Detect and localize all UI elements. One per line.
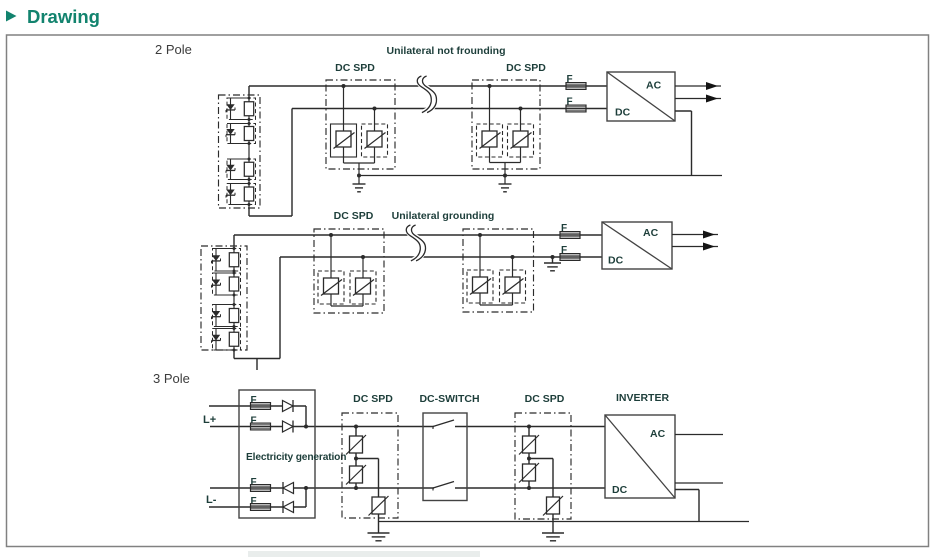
svg-text:DC: DC: [608, 255, 624, 267]
svg-text:F: F: [561, 223, 567, 234]
DC SPD 1 (diagram 1) earth descender: [358, 163, 360, 184]
svg-text:AC: AC: [646, 80, 662, 92]
PV generator block (diagram 2) unit 3 bottom connector: [216, 326, 234, 328]
PV generator block (diagram 2) unit 2 top connector: [216, 272, 234, 274]
svg-text:AC: AC: [643, 227, 659, 239]
svg-text:F: F: [567, 74, 573, 85]
node L+ tap (diagram 3 SPD1): [354, 425, 358, 429]
wire input 1 (diagram 3): [209, 405, 306, 407]
PV generator block (diagram 1) unit 1 diode lead: [230, 98, 232, 120]
DC SPD 2 (diagram 1) varistor A: [477, 124, 503, 157]
varistor 1 (diagram 3 SPD1): [350, 436, 363, 453]
svg-text:AC: AC: [650, 428, 666, 440]
Electricity generation box: [239, 390, 315, 518]
PV generator block (diagram 1) outer box: [219, 95, 261, 208]
PV generator block (diagram 1) unit 2 junction dots: [248, 122, 251, 125]
PV generator block (diagram 2) unit 4 diode lead: [215, 329, 217, 351]
PV generator block (diagram 1) unit 1 fuse: [244, 102, 253, 116]
PV generator block (diagram 1) unit 1 bottom connector: [231, 119, 250, 121]
DC SPD 1 (diagram 1) box: [326, 80, 395, 169]
diode D2 (generation): [283, 421, 294, 432]
PV generator block (diagram 1) unit 1 top connector: [231, 97, 250, 99]
PV generator block (diagram 2) unit 4 top connector: [216, 328, 234, 330]
switch contact 1 (DC-SWITCH): [432, 427, 434, 430]
DC SPD 1 (diagram 1) wire tap A: [343, 86, 345, 131]
ground junction (diagram 2): [551, 255, 555, 259]
varistor 3 (diagram 3 SPD1): [372, 497, 385, 514]
PV generator block (diagram 1) unit 3 top connector: [231, 158, 250, 160]
wire L+ after switch (diagram 3): [455, 426, 605, 428]
PV generator block (diagram 1) unit 2 fuse: [244, 127, 253, 141]
wire L+ bus (diagram 1): [248, 86, 250, 95]
svg-text:DC SPD: DC SPD: [334, 210, 374, 222]
PV generator block (diagram 1) unit 4 junction dots: [248, 182, 251, 185]
AC output arrow 1 (diagram 1): [675, 85, 721, 87]
wire input 4 (diagram 3): [209, 506, 306, 508]
wire L- (diagram 3): [210, 487, 434, 489]
fuse F3 (generation): [251, 485, 271, 492]
PV generator block (diagram 2) unit 2 diode lead: [215, 273, 217, 295]
svg-text:Unilateral not frounding: Unilateral not frounding: [387, 45, 506, 57]
wire L+ (diagram 3): [210, 426, 434, 428]
DC SPD 1 (diagram 2) varistor A: [318, 271, 344, 304]
varistor 2 (diagram 3 SPD1): [350, 466, 363, 483]
PV generator block (diagram 1) unit 2 sub-box: [227, 124, 256, 144]
node L+ tap (diagram 3 SPD2): [527, 425, 531, 429]
PV generator block (diagram 2) outer box: [201, 246, 247, 350]
inverter U3 (INVERTER): [605, 415, 675, 498]
PV generator block (diagram 2) unit 4 fuse: [229, 332, 238, 346]
PV generator block (diagram 2) unit 1 top connector: [216, 248, 234, 250]
svg-text:L+: L+: [203, 414, 216, 426]
PV generator block (diagram 1) unit 3 fuse: [244, 162, 253, 176]
DC SPD 2 (diagram 2) wire tap A: [479, 235, 481, 277]
PV generator block (diagram 1) unit 4 diode lead: [230, 184, 232, 205]
DC SPD 2 (diagram 2) varistor B: [500, 270, 526, 303]
PV generator block (diagram 1) unit 1 sub-box: [227, 98, 256, 120]
DC SPD 1 box (diagram 3): [342, 413, 398, 518]
PV generator block (diagram 2) unit 1 sub-box: [213, 249, 241, 272]
mid node (diagram 3 SPD1): [355, 453, 357, 466]
svg-text:Unilateral grounding: Unilateral grounding: [392, 210, 495, 222]
PV generator block (diagram 2) unit 3 top connector: [216, 304, 234, 306]
wire L- bus (diagram 1): [248, 208, 250, 216]
PV generator block (diagram 1) unit 1 junction dots: [248, 97, 251, 100]
PV generator block (diagram 1) unit 1 diode: [226, 104, 234, 110]
varistor 1 (diagram 3 SPD2): [523, 436, 536, 453]
earth bus junction (diagram 1 SPD2): [503, 174, 507, 178]
svg-text:3 Pole: 3 Pole: [153, 371, 190, 386]
diode D3 (generation): [283, 483, 294, 494]
PV generator block (diagram 2) unit 2 junction dots: [233, 272, 236, 275]
inverter U1 (diagram 1): [607, 72, 675, 121]
DC SPD 2 (diagram 1) bottom join: [489, 147, 491, 163]
inverter U2 (diagram 2): [602, 222, 672, 269]
svg-text:F: F: [567, 97, 573, 108]
diode D4 (generation): [283, 502, 294, 513]
AC output arrow 1 (diagram 2): [672, 234, 718, 236]
wire L- after switch (diagram 3): [455, 487, 605, 489]
line break symbol (diagram 1): [420, 76, 434, 113]
PV generator block (diagram 2) unit 4 sub-box: [213, 329, 241, 351]
AC output arrow 2 (diagram 2): [672, 246, 718, 248]
PV generator block (diagram 1) unit 4 fuse: [244, 187, 253, 201]
DC SPD 1 (diagram 1) bottom join: [343, 147, 345, 163]
svg-text:DC: DC: [615, 107, 631, 119]
PV generator block (diagram 2) unit 1 fuse: [229, 253, 238, 267]
node L- tap (diagram 3 SPD1): [355, 483, 357, 488]
svg-text:DC SPD: DC SPD: [335, 62, 375, 74]
fuse F4 (generation): [251, 504, 271, 511]
mid node (diagram 3 SPD2): [528, 453, 530, 464]
AC output wire 2 (diagram 3): [675, 482, 723, 484]
svg-text:DC SPD: DC SPD: [506, 62, 546, 74]
DC SPD 1 (diagram 2) wire tap B: [362, 257, 364, 278]
PV generator block (diagram 2) unit 2 fuse: [229, 277, 238, 291]
PV generator block (diagram 2) unit 1 junction dots: [233, 247, 236, 250]
earth bus (diagram 3): [379, 521, 750, 523]
PV generator block (diagram 1) unit 2 diode: [226, 129, 234, 135]
wire L+ bus (diagram 2): [233, 235, 235, 246]
PV generator block (diagram 2) unit 2 diode: [212, 280, 220, 286]
DC SPD 1 (diagram 1) varistor A: [331, 124, 357, 157]
stub wire (diagram 2 bottom): [256, 359, 258, 371]
PV generator block (diagram 2) unit 3 diode: [212, 311, 220, 317]
PV generator block (diagram 1) unit 4 bottom connector: [231, 204, 250, 206]
DC SPD 2 (diagram 2) varistor A: [467, 270, 493, 303]
PV generator block (diagram 2) unit 3 fuse: [229, 309, 238, 323]
fuse F2 (diagram 1): [566, 105, 586, 112]
svg-text:DC: DC: [612, 484, 628, 496]
DC SPD 1 (diagram 2) box: [314, 229, 384, 313]
PV generator block (diagram 1) unit 3 junction dots: [248, 158, 251, 161]
branch wire (diagram 3 SPD2): [529, 458, 553, 460]
DC SPD 2 (diagram 1) earth descender: [504, 163, 506, 185]
ground (diagram 3, under SPD 1): [378, 514, 380, 533]
PV generator block (diagram 1) unit 4 diode: [226, 190, 234, 196]
svg-text:DC SPD: DC SPD: [353, 393, 393, 405]
DC SPD 2 (diagram 1) varistor B: [508, 124, 534, 157]
PV generator block (diagram 2) unit 1 diode lead: [215, 249, 217, 272]
PV generator block (diagram 2) unit 4 junction dots: [233, 327, 236, 330]
PV generator block (diagram 2) unit 2 sub-box: [213, 273, 241, 295]
DC SPD 2 box (diagram 3): [515, 413, 571, 519]
section header arrow: [6, 11, 17, 22]
diode D1 (generation): [283, 401, 294, 412]
wire L- bus (diagram 2): [233, 350, 235, 359]
fuse F1 (generation): [251, 403, 271, 410]
branch wire (diagram 3 SPD1): [356, 458, 379, 460]
fuse F2 (diagram 2): [560, 254, 580, 261]
DC SPD 2 (diagram 1) box: [472, 80, 540, 169]
ground (diagram 2, on L- line): [552, 257, 554, 263]
PV generator block (diagram 2) unit 1 diode: [212, 255, 220, 261]
ground (diagram 1, under SPD 1): [353, 183, 366, 185]
PV generator block (diagram 1) unit 4 top connector: [231, 183, 250, 185]
ground (diagram 3, under SPD 2): [552, 514, 554, 533]
svg-text:INVERTER: INVERTER: [616, 392, 670, 404]
PV generator block (diagram 2) unit 4 bottom connector: [216, 349, 234, 351]
DC SPD 1 (diagram 1) wire tap B: [374, 109, 376, 132]
PV generator block (diagram 2) unit 2 bottom connector: [216, 294, 234, 296]
AC output arrow 2 (diagram 1): [675, 98, 721, 100]
fuse F2 (generation): [251, 423, 271, 430]
svg-text:Electricity generation: Electricity generation: [246, 452, 346, 463]
varistor 3 (diagram 3 SPD2): [547, 497, 560, 514]
AC output wire 1 (diagram 3): [675, 434, 723, 436]
switch contact 2 (DC-SWITCH): [432, 488, 434, 491]
earth bus (diagram 1): [359, 175, 722, 177]
DC SPD 1 (diagram 2) wire tap A: [330, 235, 332, 278]
svg-text:DC SPD: DC SPD: [525, 393, 565, 405]
DC SPD 2 (diagram 2) box: [463, 229, 534, 312]
node L- tap (diagram 3 SPD2): [528, 481, 530, 488]
PV generator block (diagram 1) unit 3 sub-box: [227, 159, 256, 180]
PV generator block (diagram 1) unit 2 bottom connector: [231, 143, 250, 145]
PV generator block (diagram 1) unit 3 diode: [226, 165, 234, 171]
varistor 2 (diagram 3 SPD2): [523, 464, 536, 481]
svg-text:DC-SWITCH: DC-SWITCH: [419, 393, 479, 405]
svg-text:F: F: [561, 245, 567, 256]
PV generator block (diagram 2) unit 4 diode: [212, 335, 220, 341]
DC return wire (diagram 3): [675, 489, 699, 491]
fuse F1 (diagram 2): [560, 232, 580, 239]
PV generator block (diagram 2) unit 1 bottom connector: [216, 270, 234, 272]
PV generator block (diagram 1) unit 4 sub-box: [227, 184, 256, 205]
DC SPD 2 (diagram 2) wire tap B: [512, 257, 514, 277]
DC SPD 1 (diagram 1) varistor B: [362, 124, 388, 157]
svg-text:L-: L-: [206, 494, 217, 506]
faint band below frame: [248, 551, 480, 557]
svg-text:2 Pole: 2 Pole: [155, 42, 192, 57]
PV generator block (diagram 1) unit 2 top connector: [231, 123, 250, 125]
DC SPD 2 (diagram 2) bottom join: [479, 293, 481, 305]
DC SPD 1 (diagram 2) bottom join: [330, 294, 332, 306]
PV generator block (diagram 1) unit 3 bottom connector: [231, 179, 250, 181]
PV generator block (diagram 2) unit 3 sub-box: [213, 305, 241, 327]
PV generator block (diagram 1) main wire: [248, 95, 250, 208]
svg-text:Drawing: Drawing: [27, 6, 100, 27]
PV generator block (diagram 2) unit 3 diode lead: [215, 305, 217, 327]
PV generator block (diagram 2) unit 3 junction dots: [233, 303, 236, 306]
PV generator block (diagram 1) unit 2 diode lead: [230, 124, 232, 144]
DC SPD 1 (diagram 2) varistor B: [350, 271, 376, 304]
fuse F1 (diagram 1): [566, 83, 586, 90]
ground (diagram 1, under SPD 2): [499, 183, 512, 185]
line break symbol (diagram 2): [409, 225, 423, 261]
DC SPD 2 (diagram 1) wire tap B: [520, 109, 522, 132]
PV generator block (diagram 2) main wire: [233, 246, 235, 350]
PV generator block (diagram 1) unit 3 diode lead: [230, 159, 232, 180]
DC return wire (diagram 1): [675, 110, 692, 112]
DC-SWITCH box: [423, 413, 467, 501]
DC SPD 2 (diagram 1) wire tap A: [489, 86, 491, 131]
